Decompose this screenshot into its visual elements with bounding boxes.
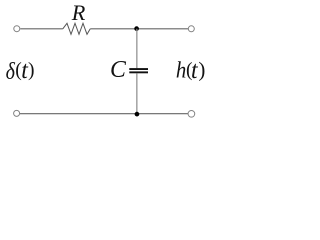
svg-text:): ) [28, 60, 35, 81]
wire: capacitor down to bottom rail [136, 73, 138, 114]
svg-text:): ) [198, 57, 205, 81]
svg-text:δ: δ [6, 59, 16, 85]
wire: bottom rail [20, 113, 188, 115]
node: top junction dot [134, 26, 139, 31]
svg-text:C: C [110, 57, 127, 83]
wire: top node down to capacitor [136, 29, 138, 68]
wire: TL terminal to resistor [20, 28, 63, 30]
terminal TR (open circle) [188, 26, 194, 32]
resistor R (zigzag) [63, 23, 90, 34]
terminal BL (open circle) [14, 110, 20, 116]
capacitor C (top plate) [129, 68, 148, 70]
terminal BR (open circle) [188, 110, 195, 117]
terminal TL (open circle) [14, 26, 20, 32]
wire: resistor to TR terminal (through top node) [90, 28, 188, 30]
node: bottom junction dot [135, 112, 140, 117]
svg-text:R: R [71, 0, 86, 25]
capacitor C (bottom plate) [129, 71, 148, 73]
svg-text:h: h [176, 57, 186, 82]
